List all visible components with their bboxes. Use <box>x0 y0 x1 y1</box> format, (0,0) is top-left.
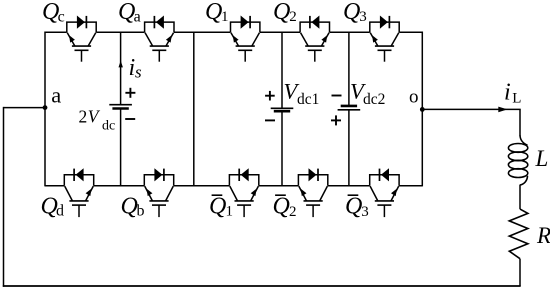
current iL arrow (rightward on load wire) <box>498 107 507 113</box>
wire between inductor and resistor <box>519 185 521 210</box>
svg-text:1: 1 <box>226 203 234 219</box>
transistor Qb (IGBT with anti-parallel diode) <box>144 168 173 217</box>
transistor Qd (IGBT with anti-parallel diode) <box>64 168 93 217</box>
svg-text:L: L <box>512 91 521 107</box>
svg-text:d: d <box>56 203 64 220</box>
svg-text:2: 2 <box>289 204 297 220</box>
svg-text:dc1: dc1 <box>297 91 319 108</box>
svg-text:dc2: dc2 <box>363 91 385 108</box>
Vdc1 plus sign <box>265 91 275 101</box>
svg-text:o: o <box>409 86 419 107</box>
wire node a to left edge <box>4 107 46 109</box>
svg-text:b: b <box>137 203 145 220</box>
Vdc1 minus sign <box>265 119 275 121</box>
svg-text:s: s <box>135 63 142 82</box>
current is arrow (upward on 2Vdc rail) <box>119 61 123 68</box>
svg-text:Q: Q <box>121 194 138 220</box>
transistor Q1 (IGBT with anti-parallel diode) <box>231 16 260 62</box>
wire top bus segment 5 <box>330 31 370 33</box>
wire node o to load <box>422 108 520 110</box>
svg-text:1: 1 <box>221 9 229 25</box>
wire bottom bus segment 3 <box>174 185 230 187</box>
transistor Qbar3 (IGBT with anti-parallel diode) <box>370 168 399 217</box>
wire top bus segment 3 <box>174 31 231 33</box>
svg-text:R: R <box>536 223 550 248</box>
wire 2Vdc rail upper <box>120 32 122 105</box>
2Vdc minus sign <box>125 118 135 120</box>
resistor R <box>509 209 528 259</box>
wire bottom bus segment 2 <box>94 185 145 187</box>
svg-text:3: 3 <box>359 9 367 25</box>
DC source Vdc1 battery plates <box>271 108 294 111</box>
wire Vdc1 rail upper <box>281 32 283 108</box>
node o junction dot <box>420 107 425 112</box>
svg-text:Q: Q <box>345 194 362 220</box>
svg-text:Q: Q <box>343 0 360 25</box>
wire top bus segment 1 <box>45 31 67 33</box>
DC source Vdc2 battery plates <box>338 106 361 110</box>
svg-text:Q: Q <box>205 0 222 25</box>
svg-text:3: 3 <box>361 204 369 220</box>
wire Vdc1 rail lower <box>281 111 283 186</box>
transistor Q3 (IGBT with anti-parallel diode) <box>370 16 399 62</box>
inductor L <box>508 135 527 185</box>
wire top bus segment 2 <box>96 31 144 33</box>
Vdc2 minus sign <box>332 95 342 97</box>
transistor Qa (IGBT with anti-parallel diode) <box>145 16 174 62</box>
wire top bus segment 4 <box>260 31 300 33</box>
Vdc2 plus sign <box>331 115 341 125</box>
svg-text:a: a <box>134 8 141 25</box>
svg-text:2: 2 <box>79 106 88 126</box>
transistor Qbar1 (IGBT with anti-parallel diode) <box>229 168 258 217</box>
wire left edge vertical <box>3 107 5 287</box>
wire left rail (phase leg a) <box>44 32 46 187</box>
wire Vdc2 rail upper <box>348 32 350 106</box>
wire bottom bus segment 1 <box>45 185 64 187</box>
wire load branch top (node o wire down to inductor) <box>519 109 521 135</box>
svg-text:2: 2 <box>289 9 297 25</box>
wire bottom bus segment 4 <box>259 185 299 187</box>
wire top bus segment 6 <box>399 31 422 33</box>
svg-text:Q: Q <box>273 0 290 25</box>
svg-text:a: a <box>51 82 61 107</box>
svg-text:i: i <box>504 80 511 106</box>
wire load branch bottom (resistor to bottom return) <box>519 259 521 286</box>
svg-text:c: c <box>58 8 65 25</box>
svg-text:Q: Q <box>273 194 290 220</box>
transistor Q2 (IGBT with anti-parallel diode) <box>300 16 329 62</box>
svg-text:Q: Q <box>209 194 226 220</box>
DC source 2Vdc battery plates <box>109 105 132 109</box>
transistor Qbar2 (IGBT with anti-parallel diode) <box>298 168 327 217</box>
wire bottom bus segment 5 <box>328 185 370 187</box>
wire bottom bus segment 6 <box>399 185 422 187</box>
wire 2Vdc rail lower <box>120 109 122 186</box>
svg-text:L: L <box>535 146 549 171</box>
2Vdc plus sign <box>125 88 135 98</box>
wire right rail (node o leg) <box>421 32 423 187</box>
svg-text:dc: dc <box>102 118 115 133</box>
wire middle rail between Qa and Q1 legs <box>193 32 195 187</box>
wire Vdc2 rail lower <box>348 110 350 186</box>
wire bottom return <box>3 285 521 287</box>
node a junction dot <box>43 105 48 110</box>
transistor Qc (IGBT with anti-parallel diode) <box>67 16 96 62</box>
